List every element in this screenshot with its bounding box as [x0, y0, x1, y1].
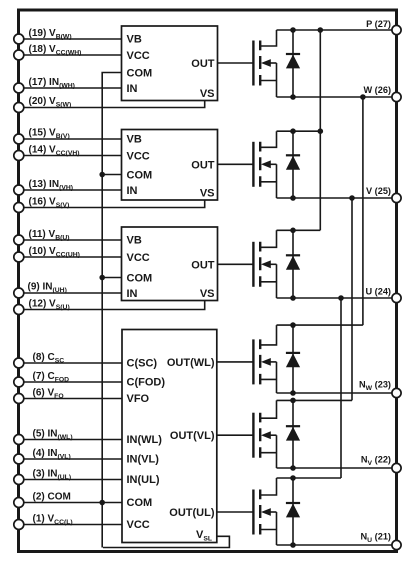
svg-text:VS: VS [200, 188, 215, 200]
junction V rail / V feed [349, 195, 355, 201]
junction Q2 (V high) drain node [290, 128, 296, 134]
junction Q5 (V low) source node [290, 465, 296, 471]
pin 10 VCC(UH) [14, 252, 24, 262]
svg-text:W (26): W (26) [363, 85, 391, 95]
transistor Q5 (V low) gate bar [252, 413, 254, 458]
wire VSL jog from U4.VSL to COM net [103, 536, 229, 547]
junction Q1 (W high) source node [290, 94, 296, 100]
pin 24 U [392, 293, 401, 302]
pin 4 IN(VL) [14, 454, 24, 464]
svg-text:IN(WL): IN(WL) [127, 434, 163, 446]
pin 11 VB(U) [14, 235, 24, 245]
pin 26 W [392, 92, 401, 101]
junction Q6 (U low) source node [290, 542, 296, 548]
svg-text:VCC: VCC [127, 50, 150, 62]
wire pin2 COM to U4.COM [22, 502, 122, 504]
svg-text:IN: IN [127, 185, 138, 197]
pin 12 VS(U) [14, 305, 24, 315]
transistor Q2 (V high) source lead [260, 164, 276, 198]
wire P rail [277, 29, 397, 31]
diode D6 [292, 478, 294, 545]
svg-text:V (25): V (25) [366, 186, 391, 196]
svg-text:VCC: VCC [127, 151, 150, 163]
wire COM net U1.COM to vertical [102, 73, 121, 548]
pin 15 VB(V) [14, 134, 24, 144]
wire pin13 IN(VH) to U2.IN [22, 189, 122, 191]
svg-text:OUT(VL): OUT(VL) [170, 430, 215, 442]
pin 13 IN(VH) [14, 185, 24, 195]
pin 25 V [392, 193, 401, 202]
wire COM branch to U3.COM [102, 277, 121, 279]
pin 22 NV [392, 463, 401, 472]
transistor Q1 (W high) body lead arrow [268, 62, 277, 64]
diode D5 [292, 400, 294, 468]
gate driver block U3 (U high side) [122, 227, 218, 301]
transistor Q3 (U high) channel bar [259, 242, 261, 287]
low-side driver block U4 [122, 330, 217, 543]
transistor Q5 (V low) drain lead [260, 400, 276, 418]
wire V phase rail [277, 197, 397, 199]
transistor Q6 (U low) source lead [260, 512, 276, 545]
transistor Q6 (U low) drain lead [260, 478, 276, 495]
wire pin17 IN(WH) to U1.IN [22, 87, 122, 89]
wire Q2 drain node [277, 130, 321, 132]
transistor Q2 (V high) drain lead [260, 131, 276, 147]
wire pin3 IN(UL) to U4.IN(UL) [22, 479, 122, 481]
wire pin19 VB(W) to U1.VB [22, 38, 122, 40]
wire W feed to Q4 drain [362, 97, 364, 325]
wire pin8 CSC to U4.C(SC) [22, 362, 122, 364]
junction P rail / P feed [318, 27, 324, 33]
svg-text:U (24): U (24) [365, 287, 391, 297]
wire U1.VS to pin20 VS(W) [22, 101, 205, 108]
transistor Q3 (U high) gate bar [252, 242, 254, 287]
transistor Q4 (W low) source lead [260, 362, 276, 393]
junction COM / U2.COM [99, 172, 105, 178]
gate driver block U2 (V high side) [122, 130, 218, 201]
wire U3.OUT to Q3 gate [218, 263, 254, 265]
junction P feed / Q2 drain [318, 128, 324, 134]
svg-text:IN: IN [127, 288, 138, 300]
junction Q2 (V high) source node [290, 195, 296, 201]
svg-text:P (27): P (27) [366, 19, 391, 29]
svg-text:VB: VB [127, 134, 142, 146]
svg-text:OUT(WL): OUT(WL) [167, 357, 215, 369]
svg-text:VS: VS [200, 88, 215, 100]
wire pin1 VCC(L) to U4.VCC [22, 524, 122, 526]
svg-text:COM: COM [127, 170, 153, 182]
wire Q4 drain node [277, 324, 363, 326]
wire pin9 IN(UH) to U3.IN [22, 292, 122, 294]
junction Q3 (U high) source node [290, 295, 296, 301]
wire U phase rail [277, 297, 397, 299]
diode D2 [292, 131, 294, 198]
svg-text:COM: COM [127, 273, 153, 285]
transistor Q2 (V high) gate bar [252, 142, 254, 187]
svg-text:OUT: OUT [191, 159, 215, 171]
svg-text:C(SC): C(SC) [127, 358, 158, 370]
pin 16 VS(V) [14, 203, 24, 213]
wire NV rail [277, 467, 397, 469]
wire pin6 VFO to U4.VFO [22, 398, 122, 400]
wire Q5 drain node [277, 399, 353, 401]
pin 20 VS(W) [14, 103, 24, 113]
svg-text:VB: VB [127, 34, 142, 46]
transistor Q4 (W low) drain lead [260, 325, 276, 345]
wire V feed to Q5 drain [351, 198, 353, 400]
transistor Q4 (W low) gate bar [252, 339, 254, 384]
pin 21 NU [392, 540, 401, 549]
transistor Q4 (W low) channel bar [259, 339, 261, 384]
junction U rail / U feed [338, 295, 344, 301]
transistor Q1 (W high) gate bar [252, 41, 254, 86]
svg-text:IN(VL): IN(VL) [127, 454, 160, 466]
diode D3 [292, 230, 294, 298]
svg-text:VB: VB [127, 235, 142, 247]
wire pin14 VCC(VH) to U2.VCC [22, 155, 122, 157]
svg-text:OUT: OUT [191, 259, 215, 271]
svg-text:VCC: VCC [127, 252, 150, 264]
svg-text:COM: COM [127, 497, 153, 509]
svg-text:VCC: VCC [127, 519, 150, 531]
transistor Q3 (U high) body lead arrow [268, 263, 277, 265]
wire pin4 IN(VL) to U4.IN(VL) [22, 458, 122, 460]
junction Q5 (V low) drain node [290, 398, 296, 404]
transistor Q3 (U high) source lead [260, 264, 276, 298]
transistor Q6 (U low) gate bar [252, 490, 254, 535]
pin 14 VCC(VH) [14, 151, 24, 161]
wire U1.OUT to Q1 gate [218, 62, 254, 64]
wire NW rail [277, 392, 397, 394]
transistor Q3 (U high) drain lead [260, 230, 276, 247]
wire W phase rail [277, 96, 397, 98]
junction Q4 (W low) source node [290, 390, 296, 396]
wire pin7 CFOD to U4.C(FOD) [22, 381, 122, 383]
svg-text:IN: IN [127, 83, 138, 95]
transistor Q1 (W high) drain lead [260, 30, 276, 46]
diode D1 [292, 30, 294, 97]
wire P feed to Q2 Q3 drains [319, 30, 321, 230]
pin 23 NW [392, 388, 401, 397]
wire U2.VS to pin16 VS(V) [22, 200, 205, 208]
wire Q3 drain node [277, 229, 321, 231]
diode D4 [292, 325, 294, 393]
wire U3.VS to pin12 VS(U) [22, 301, 205, 310]
transistor Q5 (V low) source lead [260, 435, 276, 468]
svg-text:IN(UL): IN(UL) [127, 474, 160, 486]
pin 6 VFO [14, 394, 24, 404]
wire pin5 IN(WL) to U4.IN(WL) [22, 439, 122, 441]
junction Q6 (U low) drain node [290, 475, 296, 481]
pin 9 IN(UH) [14, 288, 24, 298]
wire pin10 VCC(UH) to U3.VCC [22, 256, 122, 258]
wire NU rail [277, 544, 397, 546]
pin 2 COM [14, 498, 24, 508]
pin 5 IN(WL) [14, 435, 24, 445]
junction Q1 (W high) drain node [290, 27, 296, 33]
wire U4.OUT(UL) to Q6 gate [217, 511, 253, 513]
pin 1 VCC(L) [14, 520, 24, 530]
gate driver block U1 (W high side) [122, 26, 218, 101]
wire COM branch to U2.COM [102, 174, 121, 176]
wire U4.OUT(WL) to Q4 gate [217, 361, 253, 363]
svg-text:OUT: OUT [191, 58, 215, 70]
transistor Q1 (W high) channel bar [259, 41, 261, 86]
svg-text:(2) COM: (2) COM [33, 492, 71, 503]
junction Q3 (U high) drain node [290, 228, 296, 234]
junction Q4 (W low) drain node [290, 322, 296, 328]
svg-text:VS: VS [200, 288, 215, 300]
svg-text:COM: COM [127, 68, 153, 80]
transistor Q1 (W high) source lead [260, 63, 276, 97]
transistor Q5 (V low) channel bar [259, 413, 261, 458]
junction COM / U3.COM [99, 275, 105, 281]
transistor Q2 (V high) body lead arrow [268, 163, 277, 165]
svg-text:OUT(UL): OUT(UL) [169, 507, 215, 519]
pin 19 VB(W) [14, 34, 24, 44]
pin 27 P [392, 25, 401, 34]
pin 3 IN(UL) [14, 475, 24, 485]
wire U feed to Q6 drain [340, 298, 342, 478]
transistor Q2 (V high) channel bar [259, 142, 261, 187]
transistor Q5 (V low) body lead arrow [268, 434, 277, 436]
wire pin18 VCC(WH) to U1.VCC [22, 54, 122, 56]
transistor Q6 (U low) channel bar [259, 490, 261, 535]
wire Q6 drain node [277, 477, 342, 479]
pin 7 CFOD [14, 377, 24, 387]
wire U4.OUT(VL) to Q5 gate [217, 434, 253, 436]
wire pin11 VB(U) to U3.VB [22, 239, 122, 241]
svg-text:VFO: VFO [127, 393, 150, 405]
svg-text:C(FOD): C(FOD) [127, 377, 166, 389]
pin 17 IN(WH) [14, 83, 24, 93]
wire pin15 VB(V) to U2.VB [22, 138, 122, 140]
transistor Q4 (W low) body lead arrow [268, 361, 277, 363]
junction W rail / W feed [360, 94, 366, 100]
junction COM / pin2 line [99, 500, 105, 506]
wire U2.OUT to Q2 gate [218, 163, 254, 165]
pin 8 CSC [14, 358, 24, 368]
pin 18 VCC(WH) [14, 50, 24, 60]
transistor Q6 (U low) body lead arrow [268, 511, 277, 513]
